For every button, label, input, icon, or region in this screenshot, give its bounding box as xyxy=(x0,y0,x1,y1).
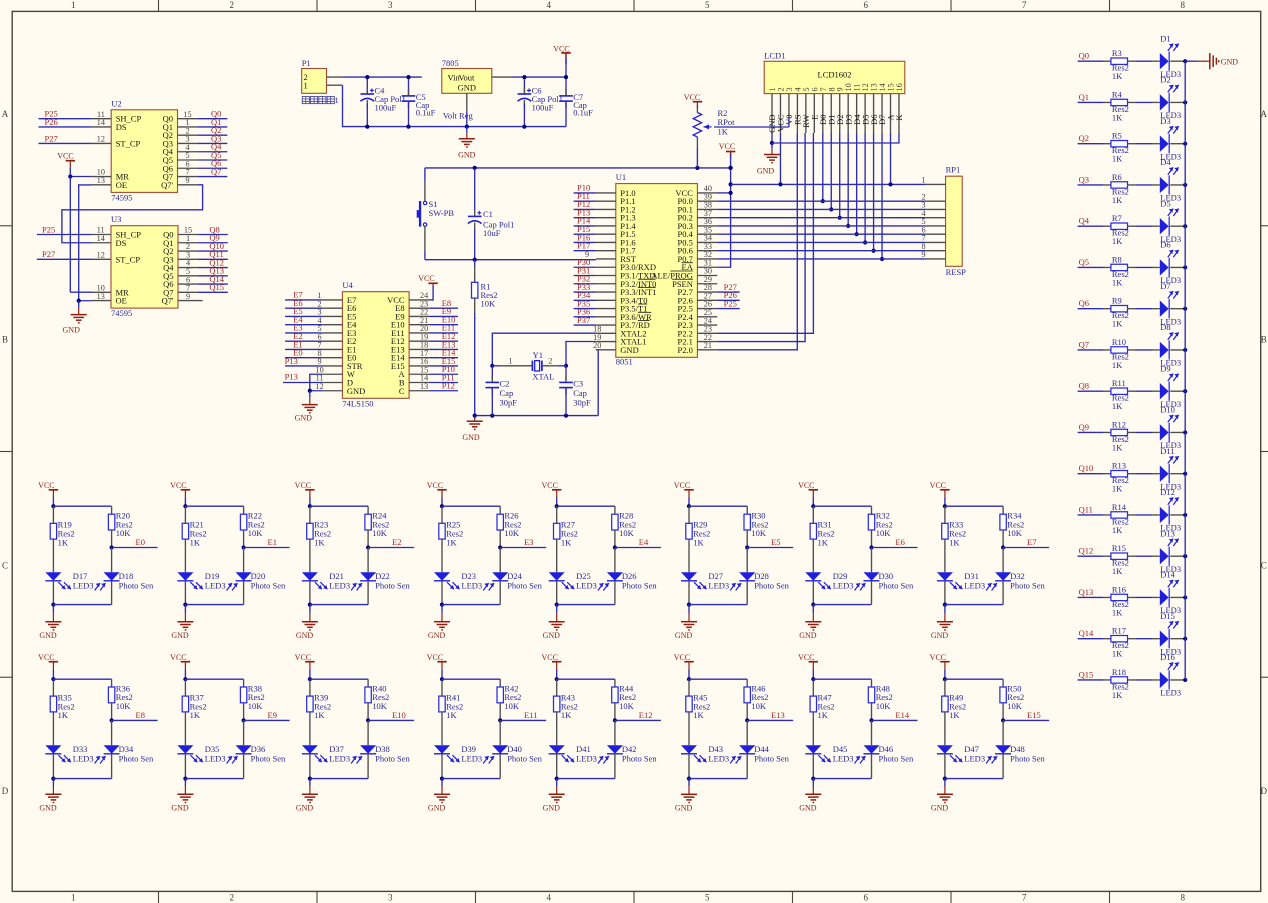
net label E6 output xyxy=(869,537,917,550)
wire cell left down D33 xyxy=(51,754,55,781)
svg-text:D9: D9 xyxy=(1160,363,1170,373)
svg-text:RP1: RP1 xyxy=(946,165,961,175)
wire cell left down D47 xyxy=(943,754,947,781)
svg-text:R18: R18 xyxy=(1112,667,1126,677)
photo sensor D48 xyxy=(986,720,1045,763)
net label Q9 xyxy=(1078,422,1103,433)
net label Q10 xyxy=(1078,463,1103,474)
stub U3.Q7' unconnected xyxy=(198,300,203,302)
resistor R4 Res2 1K xyxy=(1103,89,1152,122)
power GND cell D29 xyxy=(799,605,821,640)
svg-text:74595: 74595 xyxy=(111,192,132,202)
power GND cell D35 xyxy=(171,779,193,813)
resistor R38 Res2 10K xyxy=(240,679,264,720)
LED D7 LED3 xyxy=(1152,281,1181,327)
svg-text:1K: 1K xyxy=(561,710,572,720)
svg-text:9: 9 xyxy=(185,176,189,185)
resistor R17 Res2 1K xyxy=(1103,626,1152,659)
LED D19 LED3 xyxy=(177,571,225,591)
resistor R20 Res2 10K xyxy=(108,506,132,547)
svg-text:D6: D6 xyxy=(1160,240,1170,250)
svg-text:GND: GND xyxy=(620,345,638,355)
power VCC feeding U2.MR and U3.MR xyxy=(57,151,91,292)
svg-text:Q8: Q8 xyxy=(1079,381,1089,391)
svg-text:1K: 1K xyxy=(718,126,729,136)
net labels P30-P37 on U1 port3 xyxy=(574,257,596,325)
power GND below 7805 xyxy=(458,127,476,160)
power GND cell D21 xyxy=(296,605,318,640)
svg-text:1K: 1K xyxy=(818,537,829,547)
svg-text:Q6: Q6 xyxy=(1079,298,1089,308)
svg-text:GND: GND xyxy=(799,631,817,640)
svg-text:6: 6 xyxy=(864,0,869,10)
svg-text:U1: U1 xyxy=(616,172,626,182)
svg-text:E3: E3 xyxy=(524,537,533,547)
wire VCC rail to RP1 pin1 xyxy=(731,182,926,186)
voltage regulator 7805 xyxy=(442,58,492,129)
wire cell bottom rail D19 xyxy=(185,604,243,606)
power VCC cell R41 xyxy=(427,653,447,681)
svg-text:74595: 74595 xyxy=(111,308,132,318)
svg-text:D8: D8 xyxy=(1160,322,1170,332)
net label Q14 xyxy=(1078,628,1103,639)
net label P27 wire to U3.ST_CP xyxy=(37,249,92,259)
photo sensor D38 xyxy=(351,720,410,763)
svg-text:13: 13 xyxy=(97,176,105,185)
svg-text:1K: 1K xyxy=(1112,236,1123,246)
resistor R49 Res2 1K xyxy=(942,679,966,745)
svg-text:D48: D48 xyxy=(1010,744,1025,754)
LED D9 LED3 xyxy=(1152,363,1181,409)
resistor R23 Res2 1K xyxy=(307,506,331,572)
LED D47 LED3 xyxy=(937,744,985,764)
wire U1.VCC pin40 xyxy=(717,192,730,194)
svg-text:Q0: Q0 xyxy=(1079,51,1089,61)
svg-text:D12: D12 xyxy=(1160,487,1175,497)
photo sensor D44 xyxy=(730,720,789,763)
svg-text:D44: D44 xyxy=(754,744,769,754)
resistor R48 Res2 10K xyxy=(868,679,892,720)
svg-text:1K: 1K xyxy=(1112,277,1123,287)
wire ground rail right section xyxy=(467,126,566,128)
capacitor C7 0.1uF xyxy=(559,75,593,127)
net label E14 output xyxy=(869,710,917,723)
svg-text:VCC: VCC xyxy=(541,653,557,662)
svg-text:LED3: LED3 xyxy=(461,754,482,764)
svg-text:10K: 10K xyxy=(116,701,132,711)
svg-text:VCC: VCC xyxy=(427,653,443,662)
svg-text:R16: R16 xyxy=(1112,584,1126,594)
net label E0 output xyxy=(110,537,158,550)
wire 7805 Vout to VCC xyxy=(492,76,566,78)
power GND cell D37 xyxy=(296,779,318,813)
wire cell right down D28 xyxy=(746,581,748,605)
svg-text:Q12: Q12 xyxy=(1079,546,1094,556)
svg-text:4: 4 xyxy=(547,893,552,903)
capacitor C6 100uF xyxy=(518,75,563,129)
LCD pin labels GND..K xyxy=(767,114,904,133)
wire cell left down D21 xyxy=(308,581,312,607)
wire LED D10 cathode to bus xyxy=(1170,430,1187,434)
svg-text:1K: 1K xyxy=(314,710,325,720)
svg-text:E9: E9 xyxy=(268,710,277,720)
svg-text:B: B xyxy=(1261,335,1267,345)
svg-text:DS: DS xyxy=(116,238,127,248)
svg-text:D25: D25 xyxy=(576,571,591,581)
net label P26 wire to U2.DS xyxy=(39,117,92,127)
LED D25 LED3 xyxy=(549,571,597,591)
capacitor C3 30pF xyxy=(559,366,591,416)
wire cell top rail R33 xyxy=(945,505,1003,507)
svg-text:Photo Sen: Photo Sen xyxy=(879,754,914,764)
power GND cell D45 xyxy=(799,779,821,813)
resistor R24 Res2 10K xyxy=(365,506,389,547)
svg-text:LED3: LED3 xyxy=(329,754,350,764)
resistor R44 Res2 10K xyxy=(612,679,636,720)
svg-text:1: 1 xyxy=(509,357,513,366)
svg-text:14: 14 xyxy=(97,118,105,127)
svg-text:10K: 10K xyxy=(876,701,892,711)
capacitor C2 30pF xyxy=(486,366,518,416)
wire LED D5 cathode to bus xyxy=(1170,224,1187,228)
photo sensor D40 xyxy=(483,720,542,763)
wire cell top rail R47 xyxy=(813,678,871,680)
wire cell bottom rail D43 xyxy=(689,778,747,780)
svg-text:LED3: LED3 xyxy=(329,581,350,591)
svg-text:ST_CP: ST_CP xyxy=(116,254,141,264)
net label E8 output xyxy=(110,710,158,723)
net label P27 wire to U2.ST_CP xyxy=(39,133,92,143)
svg-text:10uF: 10uF xyxy=(483,228,501,238)
svg-text:ST_CP: ST_CP xyxy=(116,138,141,148)
power GND below LCD xyxy=(757,143,780,176)
svg-text:2: 2 xyxy=(548,357,552,366)
svg-text:P25: P25 xyxy=(42,224,55,234)
photo sensor D34 xyxy=(95,720,154,763)
svg-text:D2: D2 xyxy=(1160,75,1170,85)
resistor R31 Res2 1K xyxy=(810,506,834,572)
svg-text:Volt Reg: Volt Reg xyxy=(443,111,474,121)
chip U3 pins xyxy=(91,226,198,306)
resistor R25 Res2 1K xyxy=(439,506,463,572)
svg-text:P26: P26 xyxy=(45,117,58,127)
svg-text:1K: 1K xyxy=(1112,195,1123,205)
svg-text:Photo Sen: Photo Sen xyxy=(251,581,286,591)
U4 left pins xyxy=(316,291,366,396)
net label Q7 xyxy=(1078,339,1103,350)
wire cell left down D19 xyxy=(183,581,187,607)
svg-text:D34: D34 xyxy=(119,744,134,754)
LED D11 LED3 xyxy=(1152,446,1181,492)
resistor R5 Res2 1K xyxy=(1103,131,1152,164)
photo sensor D46 xyxy=(855,720,914,763)
wire P1.2 to 7805 Vin xyxy=(327,76,422,78)
svg-text:E13: E13 xyxy=(771,710,785,720)
svg-text:D15: D15 xyxy=(1160,611,1175,621)
svg-text:D41: D41 xyxy=(576,744,591,754)
wire LED D13 cathode to bus xyxy=(1170,554,1187,558)
svg-text:Photo Sen: Photo Sen xyxy=(622,754,657,764)
svg-text:1: 1 xyxy=(71,893,76,903)
svg-text:VCC: VCC xyxy=(38,653,54,662)
wire cell right down D34 xyxy=(111,754,113,779)
wire cell top rail R41 xyxy=(442,678,500,680)
wire cell bottom rail D25 xyxy=(557,604,615,606)
svg-text:1K: 1K xyxy=(446,710,457,720)
wire cell right down D48 xyxy=(1002,754,1004,779)
resistor R33 Res2 1K xyxy=(942,506,966,572)
LED D16 LED3 xyxy=(1152,652,1181,698)
svg-text:D10: D10 xyxy=(1160,405,1175,415)
resistor R12 Res2 1K xyxy=(1103,419,1152,452)
svg-text:7: 7 xyxy=(1022,0,1027,10)
RP1 pins xyxy=(921,176,945,260)
photo sensor D42 xyxy=(598,720,657,763)
svg-text:14: 14 xyxy=(97,234,105,243)
LED D33 LED3 xyxy=(45,744,93,764)
svg-text:1K: 1K xyxy=(1112,484,1123,494)
power GND below U4 xyxy=(295,391,318,423)
resistor R30 Res2 10K xyxy=(744,506,768,547)
svg-text:P12: P12 xyxy=(442,381,455,391)
svg-text:10K: 10K xyxy=(1007,701,1023,711)
svg-text:GND: GND xyxy=(171,631,189,640)
net label E5 output xyxy=(745,537,793,550)
svg-text:1K: 1K xyxy=(1112,319,1123,329)
svg-text:VCC: VCC xyxy=(684,93,700,102)
photo sensor D36 xyxy=(227,720,286,763)
svg-text:1K: 1K xyxy=(1112,401,1123,411)
svg-text:2: 2 xyxy=(230,0,235,10)
svg-text:E0: E0 xyxy=(136,537,145,547)
svg-text:P2.0: P2.0 xyxy=(678,345,693,355)
svg-text:U2: U2 xyxy=(111,98,121,108)
net label E10 output xyxy=(366,710,414,723)
svg-text:7805: 7805 xyxy=(442,58,459,68)
resistor R29 Res2 1K xyxy=(686,506,710,572)
svg-text:1K: 1K xyxy=(446,537,457,547)
svg-text:9: 9 xyxy=(186,292,190,301)
svg-text:LED3: LED3 xyxy=(1160,688,1181,698)
svg-text:1K: 1K xyxy=(949,710,960,720)
wires LCD D0-D7 to P0 bus xyxy=(821,133,884,261)
net label Q2 xyxy=(1078,133,1103,144)
svg-text:Photo Sen: Photo Sen xyxy=(879,581,914,591)
wire cell left down D43 xyxy=(687,754,691,781)
svg-text:Q15: Q15 xyxy=(209,282,224,292)
svg-text:13: 13 xyxy=(420,382,428,391)
net label E13 output xyxy=(745,710,793,723)
resistor R35 Res2 1K xyxy=(50,679,74,745)
svg-text:E10: E10 xyxy=(392,710,406,720)
resistor R11 Res2 1K xyxy=(1103,378,1152,411)
svg-text:D26: D26 xyxy=(622,571,637,581)
wire cell bottom rail D23 xyxy=(442,604,500,606)
svg-text:5: 5 xyxy=(705,893,710,903)
svg-text:VCC: VCC xyxy=(930,481,946,490)
resistor R50 Res2 10K xyxy=(1000,679,1024,720)
net label E7 output xyxy=(1001,537,1049,550)
svg-text:K: K xyxy=(894,114,904,121)
LED D14 LED3 xyxy=(1152,570,1181,616)
svg-text:VCC: VCC xyxy=(170,653,186,662)
resistor R28 Res2 10K xyxy=(612,506,636,547)
resistor pack RP1 RESP body xyxy=(946,165,967,277)
switch S1 SW-PB xyxy=(417,168,455,260)
wire cell left down D29 xyxy=(811,581,815,607)
wire R2 wiper to LCD V0 xyxy=(714,126,789,128)
svg-text:1K: 1K xyxy=(1112,112,1123,122)
svg-text:Q7: Q7 xyxy=(1079,339,1089,349)
LED D10 LED3 xyxy=(1152,405,1181,451)
svg-text:LED3: LED3 xyxy=(205,754,226,764)
resistor R42 Res2 10K xyxy=(497,679,521,720)
svg-text:D29: D29 xyxy=(833,571,848,581)
resistor R45 Res2 1K xyxy=(686,679,710,745)
svg-text:1K: 1K xyxy=(949,537,960,547)
LED D5 LED3 xyxy=(1152,198,1181,244)
resistor R37 Res2 1K xyxy=(182,679,206,745)
power VCC above U4 xyxy=(418,274,438,288)
resistor R43 Res2 1K xyxy=(554,679,578,745)
svg-text:30pF: 30pF xyxy=(500,398,518,408)
wire cell top rail R45 xyxy=(689,678,747,680)
svg-text:VCC: VCC xyxy=(719,142,735,151)
photo sensor D28 xyxy=(730,548,789,591)
wire U4.W and U4.GND to ground xyxy=(308,374,323,393)
svg-text:Photo Sen: Photo Sen xyxy=(251,754,286,764)
resistor R26 Res2 10K xyxy=(497,506,521,547)
svg-text:OE: OE xyxy=(116,180,127,190)
shift register U2 pins xyxy=(91,110,197,190)
svg-text:VCC: VCC xyxy=(170,481,186,490)
svg-text:21: 21 xyxy=(704,341,712,350)
svg-text:1K: 1K xyxy=(1112,71,1123,81)
svg-text:Photo Sen: Photo Sen xyxy=(754,581,789,591)
net labels Q8-Q15 on U3 outputs xyxy=(198,224,228,292)
net labels P27 P26 P25 on U1 port2 xyxy=(717,282,740,309)
resistor R14 Res2 1K xyxy=(1103,502,1152,535)
svg-text:B: B xyxy=(2,335,8,345)
resistor R40 Res2 10K xyxy=(365,679,389,720)
wire cell right down D30 xyxy=(871,581,873,605)
svg-text:1K: 1K xyxy=(190,710,201,720)
wire LED D16 cathode to bus xyxy=(1170,678,1187,682)
svg-text:1K: 1K xyxy=(1112,649,1123,659)
resistor R19 Res2 1K xyxy=(50,506,74,572)
LED D27 LED3 xyxy=(681,571,729,591)
LCD pins 1-16 xyxy=(768,83,904,133)
svg-text:D5: D5 xyxy=(1160,198,1170,208)
net label Q11 xyxy=(1078,504,1103,515)
svg-text:C: C xyxy=(2,560,8,570)
svg-text:20: 20 xyxy=(593,341,601,350)
svg-text:R11: R11 xyxy=(1112,378,1126,388)
power VCC output xyxy=(553,44,570,64)
svg-text:Photo Sen: Photo Sen xyxy=(1010,581,1045,591)
wire cell left down D35 xyxy=(183,754,187,781)
wire cell left down D27 xyxy=(687,581,691,607)
svg-text:13: 13 xyxy=(97,292,105,301)
svg-text:GND: GND xyxy=(543,804,561,813)
net label E9 output xyxy=(242,710,290,723)
wire cell right down D44 xyxy=(746,754,748,779)
svg-text:Photo Sen: Photo Sen xyxy=(507,754,542,764)
power GND cell D31 xyxy=(931,605,953,640)
svg-text:LED3: LED3 xyxy=(73,581,94,591)
net label Q15 xyxy=(1078,669,1103,680)
wire cell bottom rail D35 xyxy=(185,778,243,780)
net label Q6 xyxy=(1078,298,1103,309)
svg-text:10K: 10K xyxy=(372,528,388,538)
svg-text:1K: 1K xyxy=(1112,607,1123,617)
svg-text:GND: GND xyxy=(1221,57,1239,66)
power GND cell D23 xyxy=(428,605,450,640)
wire cell bottom rail D37 xyxy=(310,778,368,780)
wire cell left down D41 xyxy=(555,754,559,781)
svg-text:Photo Sen: Photo Sen xyxy=(119,754,154,764)
svg-text:E12: E12 xyxy=(639,710,653,720)
power GND cell D47 xyxy=(931,779,953,813)
net label Q0 xyxy=(1078,51,1103,62)
wire cell right down D42 xyxy=(614,754,616,779)
LED D8 LED3 xyxy=(1152,322,1181,368)
svg-text:LED3: LED3 xyxy=(576,754,597,764)
net labels E7-E0 into U4 xyxy=(285,290,322,358)
svg-text:8: 8 xyxy=(1181,0,1186,10)
svg-text:Photo Sen: Photo Sen xyxy=(507,581,542,591)
svg-text:LED3: LED3 xyxy=(833,754,854,764)
LED D41 LED3 xyxy=(549,744,597,764)
wire cell top rail R43 xyxy=(557,678,615,680)
svg-text:12: 12 xyxy=(316,382,324,391)
wire cell top rail R21 xyxy=(185,505,243,507)
svg-text:GND: GND xyxy=(39,631,57,640)
resistor R32 Res2 10K xyxy=(868,506,892,547)
power GND cell D19 xyxy=(171,605,193,640)
svg-text:GND: GND xyxy=(428,804,446,813)
svg-text:1K: 1K xyxy=(190,537,201,547)
svg-text:0.1uF: 0.1uF xyxy=(573,108,593,118)
svg-text:D46: D46 xyxy=(879,744,894,754)
net label Q13 xyxy=(1078,587,1103,598)
svg-text:A: A xyxy=(2,109,9,119)
svg-text:P1: P1 xyxy=(302,58,311,68)
LED D3 LED3 xyxy=(1152,116,1181,161)
svg-text:R4: R4 xyxy=(1112,89,1123,99)
svg-text:1K: 1K xyxy=(561,537,572,547)
power VCC cell R23 xyxy=(295,481,315,508)
svg-text:10K: 10K xyxy=(248,701,263,711)
svg-text:Q13: Q13 xyxy=(1079,587,1094,597)
wire cell right down D20 xyxy=(243,581,245,605)
svg-text:Q1: Q1 xyxy=(1079,92,1089,102)
svg-text:GND: GND xyxy=(931,804,949,813)
wire ground rail under crystal xyxy=(473,414,599,418)
svg-text:D31: D31 xyxy=(964,571,979,581)
wire VCC rail above S1 C1 R2 xyxy=(425,166,733,170)
svg-text:1K: 1K xyxy=(1112,154,1123,164)
svg-text:GND: GND xyxy=(799,804,817,813)
wire cell bottom rail D47 xyxy=(945,778,1003,780)
svg-text:1: 1 xyxy=(304,80,308,90)
LED D23 LED3 xyxy=(434,571,482,591)
svg-text:VCC: VCC xyxy=(798,481,814,490)
wire cell left down D23 xyxy=(440,581,444,607)
net label P25 wire to U2.SH_CP xyxy=(39,109,92,119)
svg-text:D36: D36 xyxy=(251,744,266,754)
wire LED D3 cathode to bus xyxy=(1170,142,1187,146)
